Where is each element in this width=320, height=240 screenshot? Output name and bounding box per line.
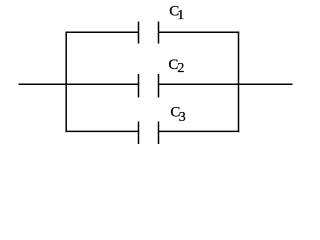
wire bottom branch left segment [66,130,139,132]
svg-text:3: 3 [179,110,186,125]
wire left bus (vertical junction bar joining three branches) [65,32,67,133]
capacitor C1 (top branch plates) [139,22,159,44]
wire top branch right segment [159,31,240,33]
wire right lead (C2 right plate to external terminal) [159,83,293,85]
wire top branch left segment [66,31,139,33]
svg-text:2: 2 [177,61,184,76]
wire left lead (middle branch, external terminal to C2 left plate) [19,83,139,85]
wire right bus (vertical junction bar joining three branches) [238,32,240,133]
capacitor C3 (bottom branch plates) [139,122,159,145]
svg-text:1: 1 [177,8,184,23]
wire bottom branch right segment [159,130,240,132]
capacitor C2 (middle branch plates) [139,74,159,98]
